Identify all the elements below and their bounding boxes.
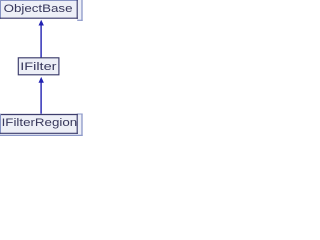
class box IFilterRegion : left border (edge-cut, light) — [0, 114, 2, 134]
class box IFilterRegion : shadow top step line — [77, 113, 82, 115]
class box IFilterRegion : shadow fill — [0, 114, 83, 136]
class box IFilterRegion : main rect fill — [0, 114, 78, 134]
svg-text:ObjectBase: ObjectBase — [4, 2, 73, 14]
class box IFilterRegion : right border — [76, 114, 78, 134]
class box ObjectBase : right border — [76, 0, 78, 19]
class box ObjectBase : main rect fill — [0, 0, 78, 19]
class box IFilterRegion : shadow right line — [81, 114, 83, 137]
class box ObjectBase : left border (edge-cut, light) — [0, 0, 2, 19]
class box ObjectBase : shadow right line — [81, 0, 83, 21]
class box ObjectBase : bottom border — [0, 17, 78, 19]
svg-text:IFilter: IFilter — [20, 60, 57, 73]
class box ObjectBase : top border (edge-cut, light) — [0, 0, 78, 2]
class box ObjectBase : shadow bottom line — [77, 19, 82, 21]
UML inheritance diagram: ObjectBase <- IFilter <- IFilterRegion — [0, 0, 83, 136]
svg-text:IFilterRegion: IFilterRegion — [2, 116, 78, 128]
class box IFilter : main rect — [18, 58, 59, 75]
class box IFilterRegion : bottom border — [0, 132, 78, 134]
class box IFilterRegion : top border — [0, 114, 78, 116]
class box IFilterRegion : shadow bottom line — [0, 134, 83, 136]
inheritance arrow IFilter -> ObjectBase : head — [39, 20, 44, 26]
inheritance arrow IFilterRegion -> IFilter : stem — [40, 82, 41, 114]
class box ObjectBase : shadow band fill (right side) — [77, 0, 82, 20]
inheritance arrow IFilter -> ObjectBase : stem — [40, 25, 41, 58]
inheritance arrow IFilterRegion -> IFilter : head — [39, 77, 44, 83]
